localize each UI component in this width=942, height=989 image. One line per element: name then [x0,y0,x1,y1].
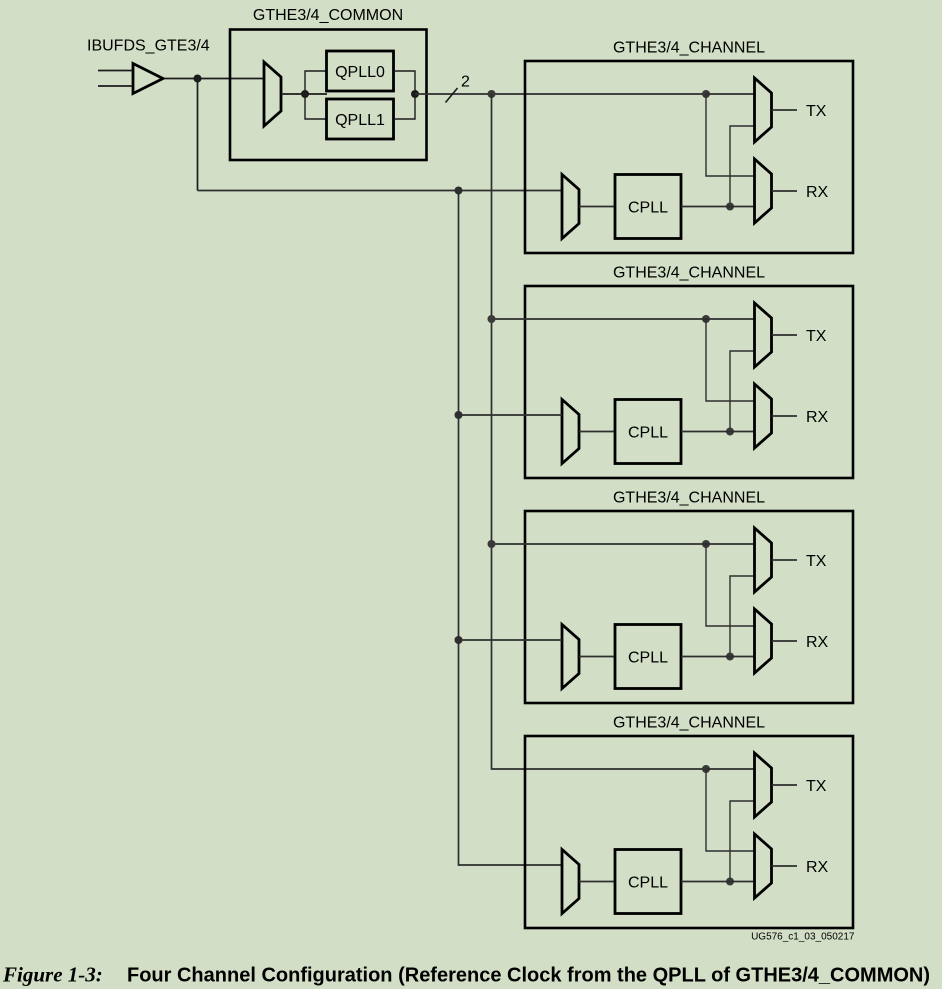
svg-text:GTHE3/4_COMMON: GTHE3/4_COMMON [253,7,403,24]
wire channel 1 refclk mux to CPLL [579,206,615,208]
svg-text:CPLL: CPLL [628,199,668,216]
wire channel 2 QPLL clock to TX mux [706,318,755,320]
junction channel 3 CPLL output [726,653,734,661]
svg-text:TX: TX [806,328,827,345]
wire QPLL0 output [394,71,416,94]
wire channel 3 QPLL clock down to RX mux [706,544,755,626]
mux channel 4 CPLL refclk select [562,850,579,914]
junction buffer output [194,75,202,83]
block QPLL1 [327,99,394,139]
wire channel 2 CPLL output to RX mux [681,431,755,433]
junction QPLL outputs [411,90,419,98]
wire vertical line 2 (CPLL refclk distribution) [459,191,563,866]
svg-text:GTHE3/4_CHANNEL: GTHE3/4_CHANNEL [613,490,765,507]
wire junction down [197,79,199,191]
mux channel 3 TX clock select [755,528,772,592]
svg-text:RX: RX [806,634,829,651]
wire channel 2 QPLL clock down to RX mux [706,319,755,401]
mux common refclk [264,62,281,126]
wire channel 3 TX output [772,559,798,561]
wire channel 1 CPLL clock up to TX mux [730,126,755,207]
wire channel 4 TX output [772,784,798,786]
junction common mux output [301,90,309,98]
svg-text:QPLL0: QPLL0 [335,64,385,81]
svg-text:RX: RX [806,409,829,426]
wire channel 3 QPLL clock to TX mux [706,543,755,545]
wire QPLL clock to channel 3 [492,543,707,545]
wire channel 1 QPLL clock to TX mux [706,93,755,95]
channel 2 internal QPLL wire junction [702,315,710,323]
wire input P to buffer [98,70,132,72]
wire input N to buffer [98,85,132,87]
wire branch to QPLL0 input [305,71,327,94]
svg-text:RX: RX [806,859,829,876]
channel 1 internal QPLL wire junction [702,90,710,98]
svg-text:TX: TX [806,103,827,120]
block channel 2 CPLL [615,400,681,464]
wire QPLL clock to channel 2 [492,318,707,320]
svg-text:GTHE3/4_CHANNEL: GTHE3/4_CHANNEL [613,265,765,282]
wire channel 3 refclk mux to CPLL [579,656,615,658]
wire channel 4 QPLL clock down to RX mux [706,769,755,851]
wire common mux output [281,93,327,95]
channel 3 internal QPLL wire junction [702,540,710,548]
mux channel 4 TX clock select [755,753,772,817]
wire channel 4 QPLL clock to TX mux [706,768,755,770]
junction QPLL line channel 2 [488,315,496,323]
junction refclk vertical 2 [455,187,463,195]
mux channel 3 RX clock select [755,609,772,673]
mux channel 2 CPLL refclk select [562,400,579,464]
svg-text:RX: RX [806,184,829,201]
wire channel 3 CPLL clock up to TX mux [730,576,755,657]
mux channel 2 RX clock select [755,384,772,448]
wire channel 3 CPLL output to RX mux [681,656,755,658]
svg-text:TX: TX [806,553,827,570]
box GTHE3/4_CHANNEL 4 [525,736,853,928]
wire refclk to channel 2 [459,414,563,416]
svg-text:CPLL: CPLL [628,424,668,441]
svg-text:QPLL1: QPLL1 [335,112,385,129]
mux channel 1 CPLL refclk select [562,175,579,239]
junction refclk line channel 3 [455,636,463,644]
junction refclk line channel 2 [455,411,463,419]
junction channel 4 CPLL output [726,878,734,886]
junction QPLL vertical line 1 [488,90,496,98]
wire channel 1 CPLL output to RX mux [681,206,755,208]
wire QPLL1 output [394,94,416,119]
svg-text:TX: TX [806,778,827,795]
svg-text:UG576_c1_03_050217: UG576_c1_03_050217 [751,931,855,942]
wire channel 1 QPLL clock down to RX mux [706,94,755,176]
bus slash [446,88,458,103]
svg-text:Figure 1-3:: Figure 1-3: [2,963,103,987]
block QPLL0 [327,51,394,91]
svg-text:CPLL: CPLL [628,649,668,666]
box GTHE3/4_COMMON [230,30,427,161]
wire channel 2 CPLL clock up to TX mux [730,351,755,432]
wire channel 4 CPLL output to RX mux [681,881,755,883]
junction QPLL line channel 3 [488,540,496,548]
junction channel 2 CPLL output [726,428,734,436]
wire refclk to channel 3 [459,639,563,641]
block channel 1 CPLL [615,175,681,239]
wire refclk horizontal to channel 1 cpll mux [198,190,563,192]
box GTHE3/4_CHANNEL 2 [525,286,853,478]
wire branch to QPLL1 input [305,94,327,119]
mux channel 2 TX clock select [755,303,772,367]
svg-text:2: 2 [461,74,470,91]
wire channel 4 CPLL clock up to TX mux [730,801,755,882]
box GTHE3/4_CHANNEL 3 [525,511,853,703]
wire channel 2 refclk mux to CPLL [579,431,615,433]
wire channel 4 refclk mux to CPLL [579,881,615,883]
svg-text:CPLL: CPLL [628,874,668,891]
wire QPLL clock to channel 1 [415,93,706,95]
wire buffer output to common mux [164,78,264,80]
wire vertical line 1 (QPLL clock distribution) [492,94,707,769]
svg-text:GTHE3/4_CHANNEL: GTHE3/4_CHANNEL [613,715,765,732]
wire channel 3 RX output [772,640,798,642]
svg-text:GTHE3/4_CHANNEL: GTHE3/4_CHANNEL [613,40,765,57]
wire channel 4 RX output [772,865,798,867]
wire channel 2 TX output [772,334,798,336]
mux channel 4 RX clock select [755,834,772,898]
block channel 3 CPLL [615,625,681,689]
svg-text:Four Channel Configuration (Re: Four Channel Configuration (Reference Cl… [127,965,930,987]
channel 4 internal QPLL wire junction [702,765,710,773]
wire channel 1 TX output [772,109,798,111]
mux channel 1 RX clock select [755,159,772,223]
wire channel 1 RX output [772,190,798,192]
buffer IBUFDS_GTE3/4 [133,64,163,94]
junction channel 1 CPLL output [726,203,734,211]
mux channel 3 CPLL refclk select [562,625,579,689]
block channel 4 CPLL [615,850,681,914]
svg-text:IBUFDS_GTE3/4: IBUFDS_GTE3/4 [87,38,210,55]
box GTHE3/4_CHANNEL 1 [525,61,853,253]
wire channel 2 RX output [772,415,798,417]
mux channel 1 TX clock select [755,78,772,142]
